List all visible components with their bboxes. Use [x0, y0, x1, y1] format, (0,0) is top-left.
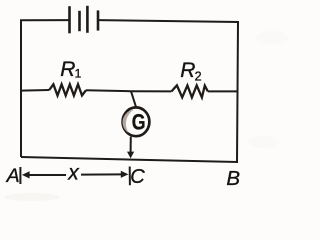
svg-text:C: C: [130, 166, 145, 188]
svg-text:G: G: [132, 109, 146, 134]
svg-text:R: R: [60, 58, 75, 81]
svg-text:R: R: [180, 59, 195, 82]
svg-text:1: 1: [75, 66, 82, 80]
svg-text:A: A: [6, 165, 20, 187]
svg-text:B: B: [226, 167, 240, 190]
svg-text:x: x: [67, 162, 80, 185]
svg-text:2: 2: [195, 70, 202, 84]
